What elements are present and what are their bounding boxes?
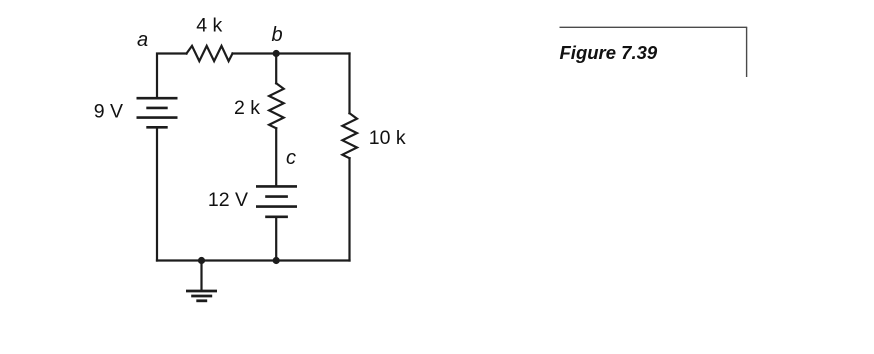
wire bottom: left corner to right corner	[157, 259, 350, 261]
battery V2 12V plates	[256, 186, 297, 216]
ground symbol	[186, 261, 217, 301]
figure caption bracket line top	[560, 26, 748, 28]
node b junction dot	[273, 50, 280, 57]
wire 12V battery to bottom wire	[275, 217, 277, 260]
ground node junction dot	[198, 257, 205, 264]
bottom middle junction dot	[273, 257, 280, 264]
wire right branch upper: top-right corner down to 10k	[348, 54, 350, 114]
wire node c: 2k resistor down to 12V battery	[275, 128, 277, 186]
wire left branch lower: 9V battery to bottom-left corner	[156, 128, 158, 261]
svg-text:9 V: 9 V	[94, 101, 123, 123]
resistor R 2k zigzag	[269, 83, 284, 128]
resistor R 4k zigzag	[187, 46, 233, 61]
resistor R 10k zigzag	[342, 113, 357, 158]
wire node b stub down to 2k resistor	[275, 54, 277, 84]
figure caption bracket line right	[746, 27, 748, 77]
wire top: 4k resistor to node b to top-right corner	[233, 52, 350, 54]
svg-text:10 k: 10 k	[369, 127, 406, 149]
svg-text:c: c	[286, 147, 296, 169]
svg-text:a: a	[137, 29, 148, 51]
svg-text:b: b	[271, 24, 282, 46]
svg-text:2 k: 2 k	[234, 97, 260, 119]
battery V1 9V plates	[137, 98, 178, 127]
wire right branch lower: 10k down to bottom-right corner	[348, 158, 350, 260]
wire top-left: node a corner to 4k resistor	[157, 54, 187, 98]
svg-text:4 k: 4 k	[196, 15, 222, 37]
svg-text:Figure 7.39: Figure 7.39	[560, 42, 658, 63]
svg-text:12 V: 12 V	[208, 189, 248, 211]
